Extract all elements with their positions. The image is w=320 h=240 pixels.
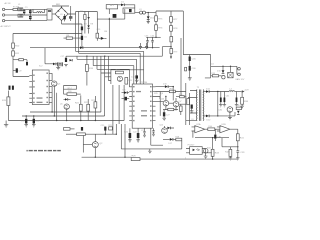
IC1 inner text xyxy=(136,91,141,92)
svg-text:U2B: U2B xyxy=(221,124,226,126)
resistor R75 xyxy=(155,13,157,16)
resistor R18 xyxy=(115,71,123,74)
wire vertical node b xyxy=(78,12,80,54)
transformer T1 taps xyxy=(186,91,197,121)
junction drops xyxy=(95,157,96,158)
resistor R42 xyxy=(229,149,232,156)
wire choke a out xyxy=(23,8,47,10)
wire to IC2 xyxy=(13,76,29,78)
resistor R23 xyxy=(94,102,97,108)
transformer T1 right winding xyxy=(202,90,205,121)
diode D14 xyxy=(70,59,72,61)
wire fan left xyxy=(205,66,211,78)
wire fan feed xyxy=(211,55,237,67)
resistor R2 startup xyxy=(84,12,86,15)
svg-text:AC INPUT: AC INPUT xyxy=(1,25,12,28)
wire nest y69 xyxy=(97,56,130,87)
ground C24 xyxy=(152,134,155,136)
resistor R16 xyxy=(86,56,88,64)
capacitor C25 xyxy=(104,127,106,131)
junction bus dots xyxy=(26,115,27,116)
ground C27 xyxy=(162,118,166,120)
varistor box xyxy=(228,72,233,77)
diode D10 xyxy=(165,85,168,88)
diode D3 xyxy=(88,12,90,26)
capacitor C24 xyxy=(152,128,154,134)
capacitor C4 bulk xyxy=(69,17,72,18)
ground aux xyxy=(188,78,192,80)
ground C16 xyxy=(32,123,36,127)
connector FAN2 xyxy=(238,73,241,76)
wire nest y73 xyxy=(101,56,111,73)
snubber R32 xyxy=(187,99,190,105)
resistor R33 xyxy=(180,106,183,111)
bridge BR1 xyxy=(55,8,68,21)
transistor Q10 xyxy=(162,128,168,134)
resistor R79 xyxy=(170,49,173,54)
ground C39 xyxy=(236,158,239,160)
resistor R10 xyxy=(12,43,15,48)
relay RL1 box xyxy=(106,5,117,9)
transformer T1 left winding xyxy=(195,90,198,121)
wire drive a xyxy=(156,86,165,88)
wire right verts xyxy=(160,83,189,125)
wire nest y53 xyxy=(79,53,141,84)
ground C23 xyxy=(143,135,146,137)
capacitor C20 xyxy=(125,97,127,101)
arrow net c xyxy=(139,43,141,49)
wire y148 xyxy=(121,148,182,150)
wire vertical node a xyxy=(75,12,77,52)
svg-text:FAN 12V: FAN 12V xyxy=(236,78,245,81)
wire drive b xyxy=(156,97,161,100)
transistor Q2 xyxy=(92,142,98,148)
wire mid verticals xyxy=(101,73,124,134)
IC2 left pins xyxy=(29,75,32,102)
resistor R38 xyxy=(185,67,187,71)
resistor R43 xyxy=(212,138,214,150)
svg-text:U2A: U2A xyxy=(196,123,201,126)
ground R42 xyxy=(229,158,232,160)
IC2 box xyxy=(32,70,49,105)
resistor R4 xyxy=(96,33,99,38)
capacitor C31 xyxy=(223,92,225,98)
wire drive vert xyxy=(172,87,174,101)
IC1 pin numbers left xyxy=(133,86,135,87)
wire mid drops xyxy=(116,124,125,157)
resistor R20 xyxy=(64,93,68,95)
capacitor C16 xyxy=(33,116,35,119)
IC1 right pins xyxy=(153,87,156,121)
IC2 pin numbers left xyxy=(33,75,35,76)
IC2 inner text xyxy=(37,97,43,98)
wire Q2 collector xyxy=(94,134,96,141)
diode D17 xyxy=(163,138,170,140)
wire to bus corner xyxy=(162,47,171,57)
capacitor C18 xyxy=(135,75,138,78)
opamp U2A xyxy=(195,126,205,133)
resistor R22 xyxy=(87,104,90,111)
relay contact blob xyxy=(113,14,117,18)
opto stubs xyxy=(186,149,212,153)
label footnote xyxy=(27,150,61,152)
wire bottom bus xyxy=(82,156,132,158)
osc box edge xyxy=(111,70,144,84)
connector J1 pin1 xyxy=(2,8,4,10)
capacitor C33 xyxy=(146,37,148,47)
diode D16 xyxy=(167,127,170,130)
capacitor C27 xyxy=(163,112,165,116)
wire Q2 base xyxy=(83,135,92,152)
thermistor box xyxy=(47,9,52,20)
diode D12 xyxy=(203,115,206,117)
svg-text:+12V: +12V xyxy=(244,89,250,91)
capacitor C30 xyxy=(220,92,222,98)
capacitor C11 xyxy=(58,62,59,66)
resistor R11 xyxy=(12,48,14,51)
ground C18 xyxy=(135,80,139,82)
arrow net b xyxy=(170,56,172,59)
wire vertical node c xyxy=(81,24,83,36)
transformer T1 core xyxy=(199,90,200,121)
wire cmp rail xyxy=(193,131,229,138)
transistor Q9 xyxy=(222,76,225,79)
wire Q3 verticals xyxy=(52,73,57,120)
capacitor C35 xyxy=(189,57,191,62)
ground Q8 xyxy=(228,118,232,120)
ground left rail xyxy=(4,121,8,128)
junction y56 dots xyxy=(86,56,87,57)
transistor Q8 xyxy=(227,107,233,113)
resistor R19 xyxy=(125,78,128,85)
junction L3 out xyxy=(148,12,149,13)
wire relay down xyxy=(108,9,110,48)
capacitor C22 xyxy=(137,128,139,133)
wire earth line xyxy=(5,20,47,22)
wire branch IC2 xyxy=(45,48,49,64)
wire nest y59 xyxy=(77,56,137,84)
wire nest y76 xyxy=(105,56,111,77)
snubber C28 xyxy=(191,105,193,109)
capacitor C17 xyxy=(65,58,67,62)
capacitor C6 xyxy=(63,16,65,19)
wire bridge left xyxy=(52,13,55,15)
wire fb xyxy=(222,138,238,147)
ground C22 xyxy=(136,138,140,142)
svg-text:TL494: TL494 xyxy=(141,82,148,84)
capacitor C39 xyxy=(236,147,239,158)
capacitor C12 xyxy=(61,62,62,66)
resistor R25 xyxy=(109,127,113,130)
resistor R27 xyxy=(64,128,71,131)
zener ZD1 xyxy=(147,13,149,17)
ground C17 xyxy=(64,56,68,67)
resistor R26 xyxy=(131,158,140,161)
wire aux rail xyxy=(183,54,211,56)
capacitor C14 xyxy=(12,86,14,90)
wire right long vert xyxy=(180,38,182,96)
resistor R31 xyxy=(180,96,185,98)
wire divider top xyxy=(12,34,14,44)
junction bridge xyxy=(61,7,62,8)
transistor Q7 xyxy=(173,101,179,107)
junction relay xyxy=(109,18,110,19)
wire midleft corner2 xyxy=(64,86,77,95)
diode D11 xyxy=(203,91,206,93)
wire midleft corner1 xyxy=(64,86,77,90)
IC1 left pins xyxy=(129,87,132,121)
transistor Q3 xyxy=(52,81,57,86)
junction drive dots xyxy=(173,86,174,87)
wire aux top xyxy=(76,11,98,13)
capacitor C23 xyxy=(143,128,145,135)
IC1 TL494 box xyxy=(132,84,152,128)
junction fb xyxy=(237,146,238,147)
relay RL2 box xyxy=(123,8,135,13)
diode D9 xyxy=(65,98,67,100)
junction midleft dots xyxy=(66,120,67,121)
resistor R30 xyxy=(169,90,175,93)
opamp U2B xyxy=(220,126,230,133)
inductor L5 xyxy=(37,12,43,13)
resistor R78 xyxy=(170,22,172,25)
capacitor C36 xyxy=(189,66,191,71)
junction bottom right xyxy=(212,158,213,159)
resistor R40 xyxy=(208,128,215,131)
wire relay contact xyxy=(97,9,125,19)
wire Q2 emitter xyxy=(94,148,96,158)
transistor Q5 xyxy=(64,104,69,109)
wire nest y80 xyxy=(108,56,111,80)
IC2 pin numbers right xyxy=(46,73,48,74)
ground opto xyxy=(204,149,208,159)
capacitor C34 xyxy=(151,37,153,47)
capacitor C13 xyxy=(9,86,11,90)
bus wire lower3 xyxy=(8,120,124,122)
resistor R34 xyxy=(241,97,244,104)
wire nest y65 xyxy=(93,56,134,84)
wire right drop xyxy=(182,11,184,55)
capacitor C38 xyxy=(214,135,216,139)
diode D13 xyxy=(237,111,240,114)
capacitor C5 xyxy=(81,36,83,40)
choke LF1 winding a xyxy=(18,8,23,11)
diode D7 xyxy=(49,63,53,65)
resistor R15 tall xyxy=(7,97,10,106)
wire nest y51 xyxy=(76,51,144,84)
capacitor CX2 xyxy=(29,9,31,15)
svg-text:PC817: PC817 xyxy=(188,145,195,147)
ground mid xyxy=(148,149,151,154)
diode D15 xyxy=(222,66,224,70)
capacitor CY1 xyxy=(29,15,31,21)
connector J1 pin3 xyxy=(2,19,4,21)
junction bottom mid xyxy=(105,134,106,135)
connector FAN1 xyxy=(238,67,241,70)
wire bridge top bus xyxy=(52,5,69,7)
arrow net d xyxy=(146,43,148,49)
diode D8 xyxy=(124,91,127,94)
IC2 right pins xyxy=(49,73,52,102)
diode D6 on bus xyxy=(80,46,83,49)
svg-text:AC IN: AC IN xyxy=(5,2,11,5)
resistor R77 xyxy=(170,11,172,17)
wire nest y56 long xyxy=(66,55,162,57)
bus wire lower2 xyxy=(22,115,105,117)
resistor R12 xyxy=(13,59,19,61)
wire bridge to bulk xyxy=(62,6,76,24)
optocoupler U5 xyxy=(190,147,203,155)
IC1 pin numbers right xyxy=(150,86,152,87)
bus wire lower1 xyxy=(30,111,101,113)
fuse F1 xyxy=(13,9,18,11)
connector J1 pin2 xyxy=(2,14,4,16)
wire after fuse xyxy=(17,8,19,10)
diode D1 xyxy=(118,4,121,6)
resistor R35 xyxy=(236,107,241,109)
junction cap dots xyxy=(147,47,148,48)
resistor R6 xyxy=(66,37,72,39)
wire N line xyxy=(5,14,18,16)
inductor L2 xyxy=(229,90,235,93)
transistor Q6 xyxy=(163,100,169,106)
resistor R39 xyxy=(212,75,218,77)
resistor R41 xyxy=(236,134,239,141)
inductor L3 xyxy=(135,12,140,14)
wire nest y47 xyxy=(30,47,160,49)
arrow output xyxy=(242,90,245,92)
transistor Q11 xyxy=(204,149,208,153)
ground zener xyxy=(147,22,150,24)
wire cap rail xyxy=(146,36,161,38)
wire opamp out xyxy=(230,129,238,134)
capacitor C5b xyxy=(81,27,83,31)
capacitor C15 xyxy=(25,116,27,119)
diode D4 xyxy=(87,17,89,19)
wire IC1 out xyxy=(151,128,163,145)
resistor R24 xyxy=(66,133,77,135)
ground C15 xyxy=(24,123,28,127)
junction R78 xyxy=(170,46,171,47)
ground C11 xyxy=(56,68,60,70)
resistor R21 xyxy=(79,104,82,111)
wire choke b out xyxy=(23,14,47,16)
junction fan dots xyxy=(222,66,223,67)
ground snubber xyxy=(190,109,193,114)
resistor R76 xyxy=(155,21,157,25)
choke LF1 winding b xyxy=(18,14,23,17)
transistor Q4 xyxy=(117,76,122,81)
wire output mid vert xyxy=(217,92,219,116)
capacitor C9 xyxy=(13,69,16,71)
wire L line xyxy=(5,8,13,10)
capacitor C21 xyxy=(129,128,131,133)
resistor R28 xyxy=(176,138,182,141)
ground C21 xyxy=(128,138,132,142)
resistor R36 xyxy=(168,108,174,110)
capacitor CX1 xyxy=(23,9,25,15)
capacitor C8 xyxy=(23,60,27,62)
wire aux node xyxy=(13,33,82,35)
capacitor C26 xyxy=(81,127,83,131)
capacitor C32 xyxy=(236,92,238,98)
diode D5 xyxy=(101,37,104,40)
